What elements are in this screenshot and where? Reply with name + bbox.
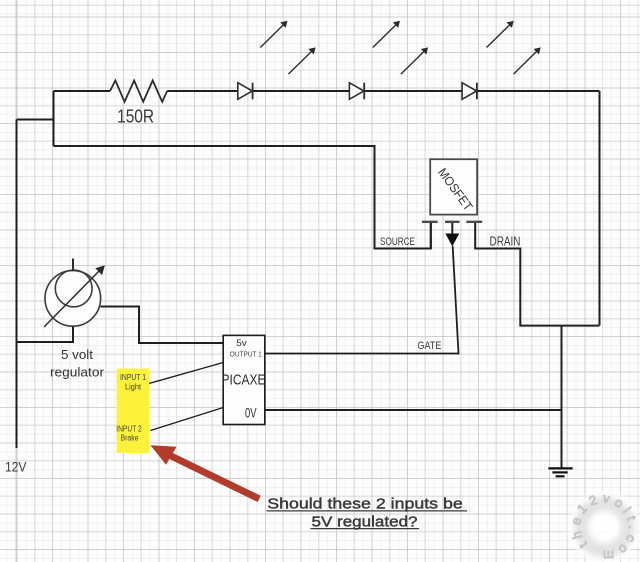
- svg-text:regulator: regulator: [50, 364, 105, 379]
- svg-text:Brake: Brake: [121, 433, 139, 442]
- wire: regulator output to PICAXE 5v pin: [101, 307, 224, 344]
- svg-text:12V: 12V: [5, 458, 27, 474]
- wire: 0V net from PICAXE to ground: [265, 409, 562, 411]
- LED D3 light arrow upper: [487, 21, 514, 48]
- svg-text:Should these 2 inputs be: Should these 2 inputs be: [267, 496, 463, 513]
- svg-text:5 volt: 5 volt: [61, 347, 93, 362]
- MOSFET Q1 source pin: [430, 223, 432, 249]
- wire: regulator bottom stub to 12V rail: [17, 327, 74, 343]
- svg-text:PICAXE: PICAXE: [222, 372, 266, 389]
- LED D3 diode symbol: [462, 83, 477, 100]
- yellow highlight over PICAXE inputs: [117, 369, 150, 454]
- LED D2 light arrow upper: [373, 21, 400, 48]
- MOSFET Q1 drain pin and wire to drain net: [475, 223, 599, 326]
- LED D3 light arrow lower: [514, 47, 541, 74]
- svg-text:150R: 150R: [117, 106, 154, 127]
- svg-text:SOURCE: SOURCE: [380, 236, 415, 248]
- svg-text:OUTPUT 1: OUTPUT 1: [230, 350, 262, 359]
- regulator VR1: adjustment arrow: [44, 265, 105, 327]
- wire: regulator top stub: [72, 259, 74, 272]
- MOSFET Q1 body box: [430, 159, 477, 214]
- wire: 12V rail vertical: [16, 120, 18, 449]
- wire: gate net from PICAXE OUTPUT 1: [265, 246, 459, 353]
- watermark the12volt.com: [568, 490, 640, 562]
- ground symbol: [548, 468, 572, 476]
- wire: top LED rail right of resistor: [167, 90, 599, 92]
- LED D2 light arrow lower: [401, 47, 428, 74]
- 5 volt regulator label: [50, 347, 105, 379]
- LED D1 light arrow upper: [260, 21, 287, 48]
- resistor R1 150R zigzag: [110, 81, 167, 102]
- svg-text:Light: Light: [125, 383, 142, 392]
- wire: INPUT 1 to PICAXE: [149, 363, 223, 384]
- MOSFET Q1 terminal dashes: [422, 221, 482, 223]
- MOSFET Q1 gate pin with arrow: [445, 223, 459, 247]
- svg-text:5v: 5v: [236, 338, 247, 349]
- svg-text:0V: 0V: [245, 404, 257, 420]
- svg-text:INPUT 1: INPUT 1: [120, 373, 146, 382]
- wire: 12V rail jog to top rail: [17, 91, 54, 146]
- regulator VR1: outer circle: [45, 271, 101, 327]
- LED D1 light arrow lower: [288, 47, 315, 74]
- regulator VR1: inner circle: [55, 270, 92, 307]
- LED D1 diode symbol: [238, 83, 253, 100]
- annotation red arrow: [151, 445, 260, 499]
- wire: drain net down to ground: [561, 326, 563, 468]
- svg-text:DRAIN: DRAIN: [490, 235, 521, 249]
- svg-text:5V regulated?: 5V regulated?: [312, 513, 418, 530]
- svg-text:INPUT 2: INPUT 2: [116, 424, 142, 433]
- annotation question text line 2: [311, 513, 420, 530]
- wire: middle rail to MOSFET source: [54, 146, 431, 249]
- LED D2 diode symbol: [349, 83, 364, 100]
- annotation question text line 1: [267, 496, 468, 513]
- svg-text:GATE: GATE: [417, 340, 441, 352]
- wire: top LED rail left segment (12V feed to resistor): [54, 90, 111, 92]
- wire: LED rail right drop to drain net: [599, 91, 601, 326]
- wire: INPUT 2 to PICAXE: [151, 408, 224, 431]
- PICAXE U1 box: [223, 335, 265, 424]
